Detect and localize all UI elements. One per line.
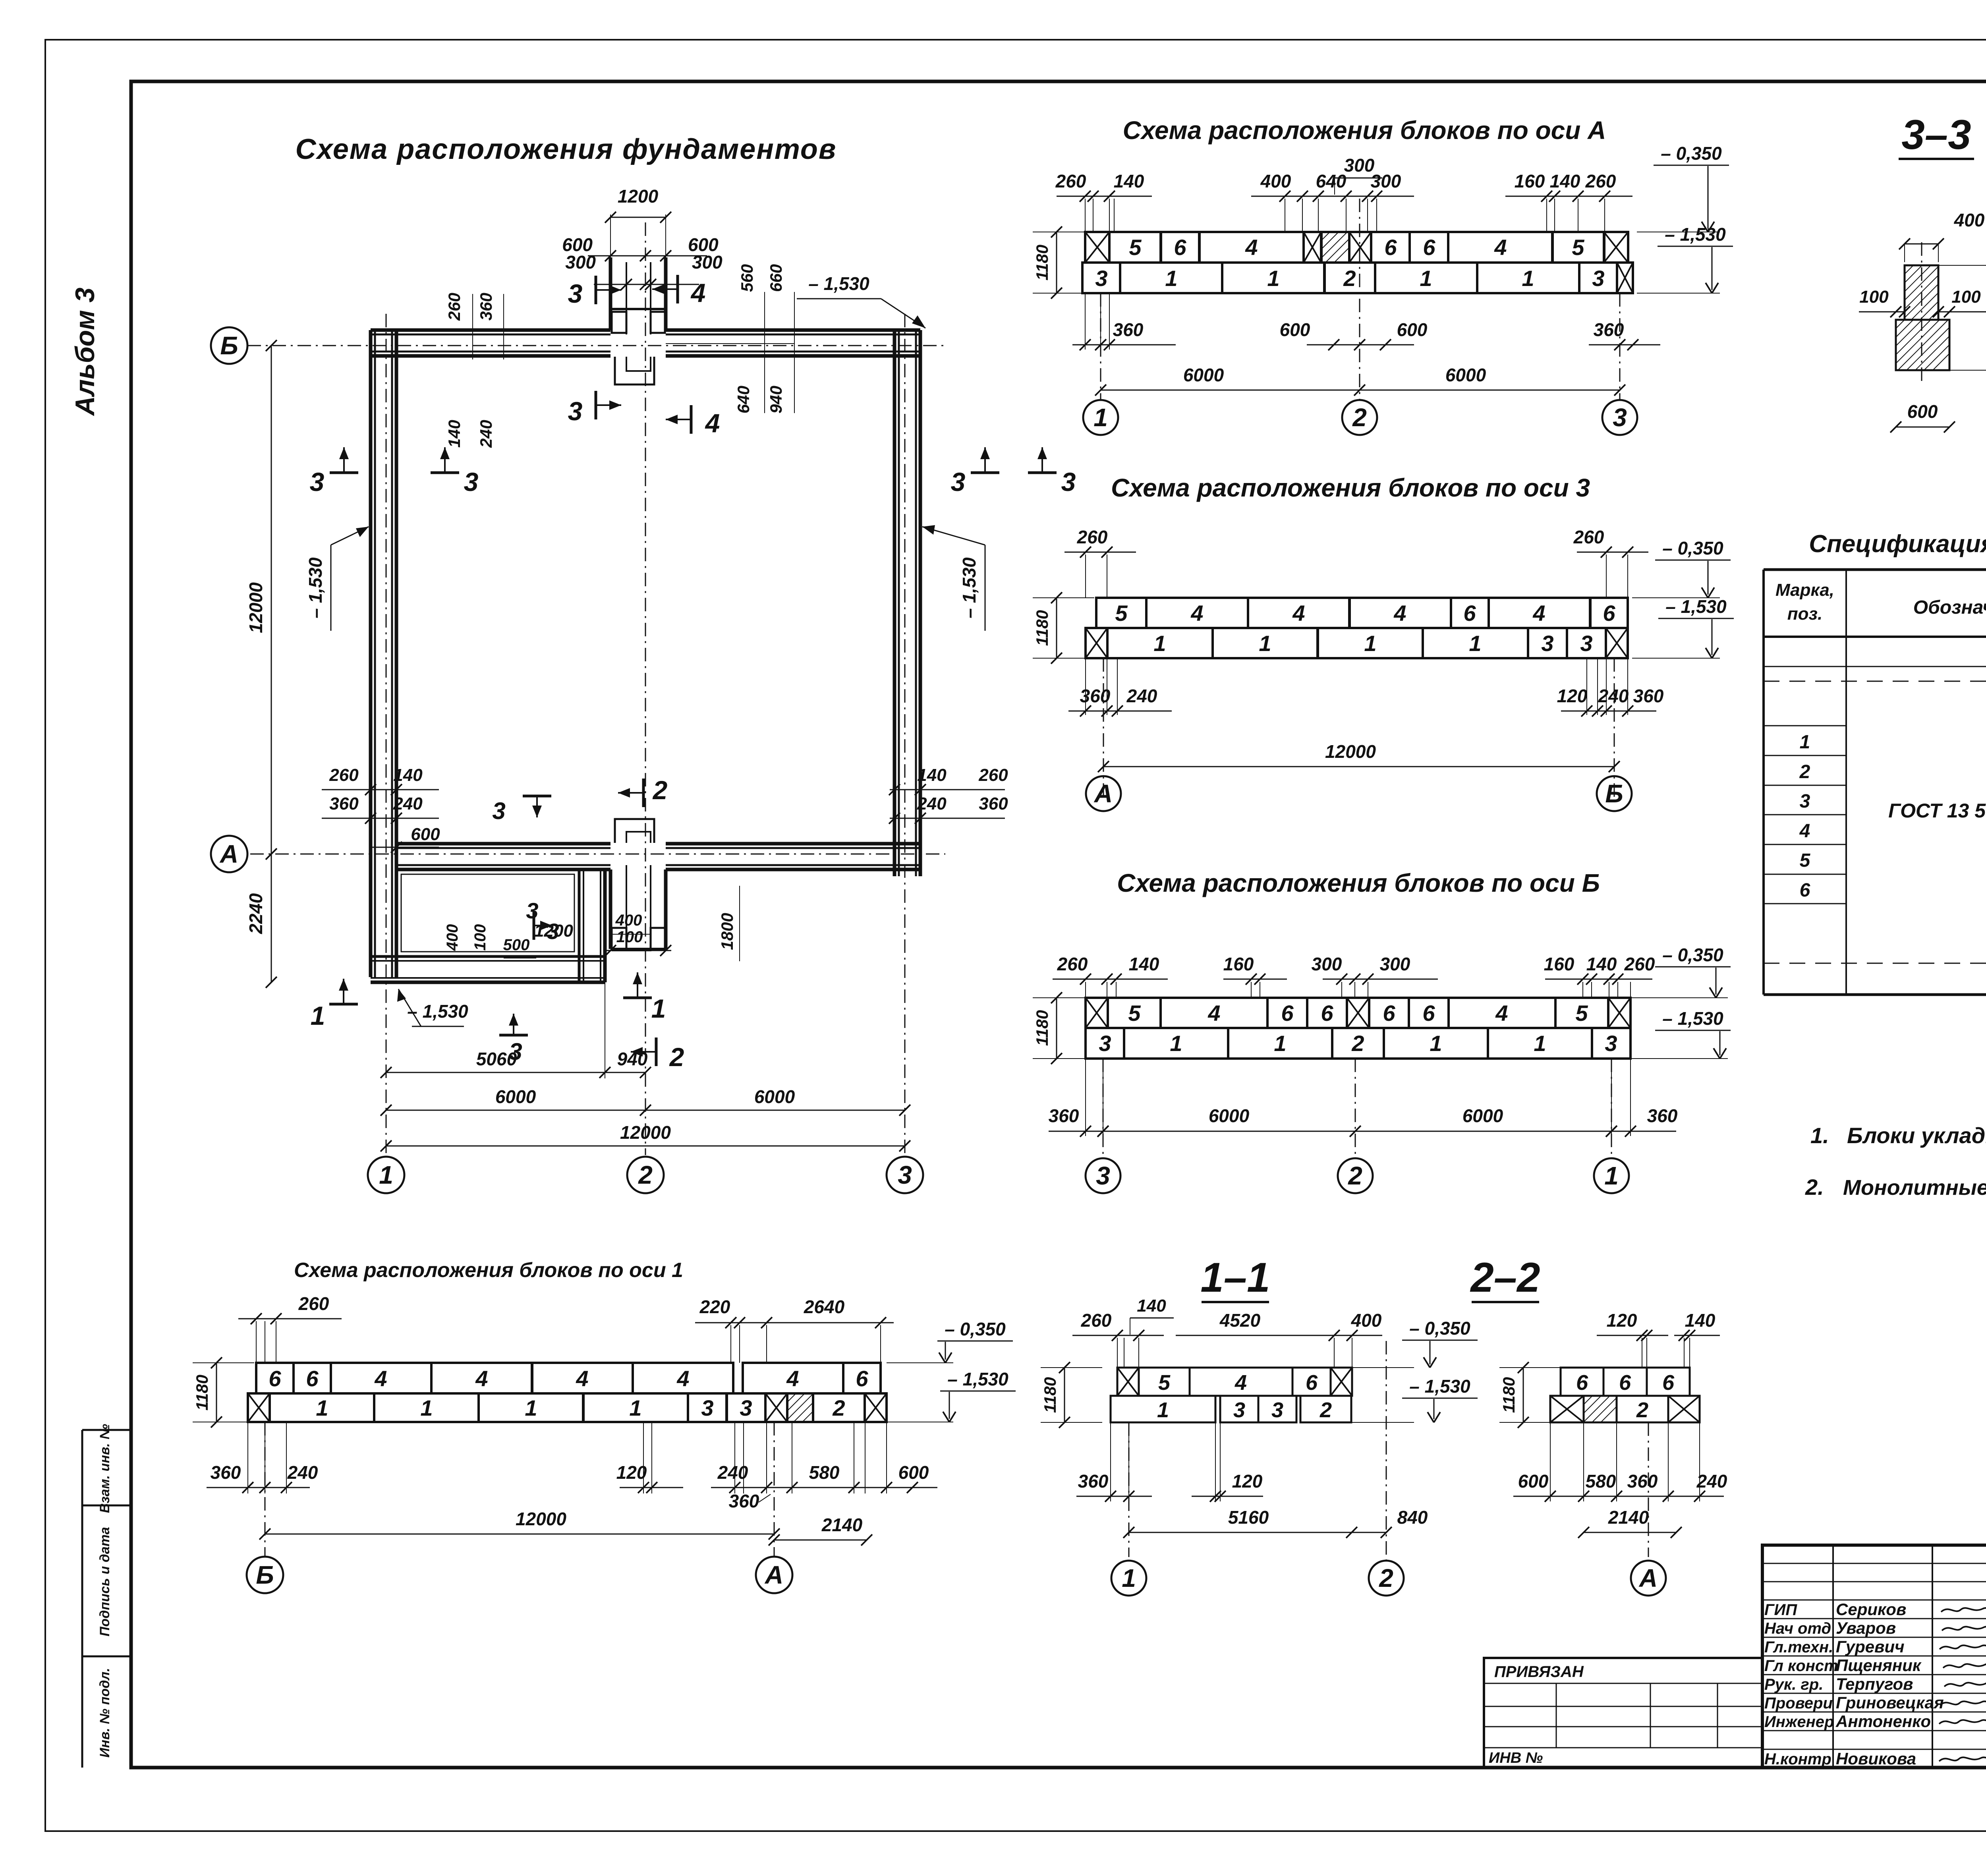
svg-text:5: 5 bbox=[1128, 1001, 1141, 1026]
svg-text:Монолитные участки выполнять: Монолитные участки выполнять из бетона к… bbox=[1843, 1176, 1986, 1200]
svg-text:6000: 6000 bbox=[1209, 1105, 1250, 1126]
svg-text:140: 140 bbox=[1129, 954, 1159, 974]
svg-text:360: 360 bbox=[1647, 1105, 1678, 1126]
elevation axis A level marks bbox=[1637, 232, 1720, 232]
svg-text:240: 240 bbox=[287, 1462, 318, 1483]
svg-text:– 1,530: – 1,530 bbox=[1409, 1376, 1470, 1397]
svg-text:260: 260 bbox=[298, 1293, 329, 1314]
svg-text:120: 120 bbox=[1557, 686, 1588, 706]
svg-text:– 1,530: – 1,530 bbox=[959, 557, 979, 618]
svg-text:4: 4 bbox=[374, 1366, 387, 1391]
svg-text:3: 3 bbox=[1096, 1161, 1110, 1190]
svg-text:1800: 1800 bbox=[718, 913, 736, 950]
svg-text:260: 260 bbox=[978, 765, 1008, 785]
elevation axis A upper row bbox=[1085, 232, 1109, 263]
svg-text:360: 360 bbox=[211, 1462, 241, 1483]
svg-text:3: 3 bbox=[1605, 1031, 1617, 1056]
section 3-3 level marks bbox=[1938, 265, 1986, 266]
svg-text:300: 300 bbox=[1371, 171, 1401, 191]
svg-text:840: 840 bbox=[1397, 1507, 1428, 1528]
svg-text:3: 3 bbox=[526, 898, 538, 923]
svg-text:3: 3 bbox=[701, 1395, 713, 1420]
svg-text:1: 1 bbox=[1364, 631, 1376, 656]
svg-text:640: 640 bbox=[734, 386, 753, 413]
svg-text:– 0,350: – 0,350 bbox=[1409, 1318, 1470, 1339]
elevation axis 1 level marks bbox=[887, 1362, 953, 1363]
svg-text:160: 160 bbox=[1223, 954, 1254, 974]
elevation axis 3 circles bbox=[1086, 776, 1121, 811]
svg-text:3–3: 3–3 bbox=[1901, 112, 1971, 158]
section 3-3 dims bbox=[1905, 243, 1938, 245]
svg-text:1: 1 bbox=[1170, 1031, 1182, 1056]
svg-text:260: 260 bbox=[445, 293, 464, 321]
svg-text:1180: 1180 bbox=[1033, 1010, 1051, 1046]
svg-text:560: 560 bbox=[738, 264, 756, 292]
svg-text:12000: 12000 bbox=[620, 1122, 671, 1143]
svg-text:660: 660 bbox=[767, 264, 785, 292]
svg-text:3: 3 bbox=[1061, 467, 1076, 497]
svg-text:6: 6 bbox=[1422, 1001, 1435, 1026]
svg-text:Блоки укладывать на раствор: Блоки укладывать на растворе марки 50. bbox=[1847, 1123, 1986, 1148]
svg-text:1: 1 bbox=[311, 1001, 325, 1030]
svg-text:1: 1 bbox=[1800, 732, 1810, 753]
svg-text:3: 3 bbox=[1095, 266, 1107, 291]
svg-text:1: 1 bbox=[1122, 1564, 1136, 1592]
svg-text:Инженер: Инженер bbox=[1764, 1713, 1834, 1731]
svg-text:140: 140 bbox=[445, 420, 464, 448]
svg-text:4: 4 bbox=[1207, 1001, 1220, 1026]
svg-text:3: 3 bbox=[951, 467, 966, 497]
svg-text:5: 5 bbox=[1572, 235, 1584, 260]
elevation axis A top dims bbox=[1085, 199, 1086, 232]
spec table grid bbox=[1764, 568, 1986, 571]
section 1-1 bottom dims bbox=[1110, 1422, 1111, 1501]
svg-text:3: 3 bbox=[1592, 266, 1604, 291]
svg-text:2.: 2. bbox=[1805, 1175, 1824, 1200]
svg-text:240: 240 bbox=[1598, 686, 1629, 706]
svg-text:Сериков: Сериков bbox=[1836, 1600, 1906, 1619]
svg-text:– 0,350: – 0,350 bbox=[945, 1319, 1006, 1339]
annex south wall bbox=[371, 955, 605, 958]
svg-text:240: 240 bbox=[1126, 686, 1157, 706]
elevation axis 3 upper row bbox=[1096, 598, 1146, 628]
svg-text:3: 3 bbox=[547, 919, 559, 944]
svg-text:5: 5 bbox=[1129, 235, 1142, 260]
svg-text:120: 120 bbox=[616, 1462, 647, 1483]
svg-text:ГОСТ 13 579 – 78: ГОСТ 13 579 – 78 bbox=[1888, 800, 1986, 822]
svg-text:6000: 6000 bbox=[495, 1086, 536, 1107]
svg-text:140: 140 bbox=[1550, 171, 1580, 191]
svg-text:5: 5 bbox=[1158, 1371, 1171, 1395]
svg-text:400: 400 bbox=[444, 924, 461, 951]
svg-text:260: 260 bbox=[1624, 954, 1655, 974]
svg-text:580: 580 bbox=[809, 1462, 840, 1483]
svg-text:3: 3 bbox=[1800, 791, 1810, 812]
section 3-3 footing bbox=[1896, 320, 1949, 370]
svg-text:4: 4 bbox=[1495, 1001, 1508, 1026]
svg-text:ИНВ №: ИНВ № bbox=[1489, 1750, 1543, 1766]
svg-text:300: 300 bbox=[1344, 155, 1375, 176]
svg-text:140: 140 bbox=[1114, 171, 1144, 191]
section 1-1 top dims bbox=[1117, 1338, 1118, 1368]
svg-text:400: 400 bbox=[1351, 1310, 1382, 1331]
elevation axis A 1180 dim bbox=[1056, 232, 1057, 293]
axis line A bbox=[250, 854, 945, 855]
svg-text:2: 2 bbox=[669, 1042, 684, 1072]
svg-text:1: 1 bbox=[420, 1395, 433, 1420]
elevation axis B level marks bbox=[1631, 997, 1728, 998]
svg-text:Схема расположения блоков по: Схема расположения блоков по оси 1 bbox=[294, 1259, 683, 1282]
section 2-2 circle bbox=[1631, 1561, 1666, 1596]
south porch walls bbox=[609, 869, 612, 949]
section 1-1 lower row bbox=[1111, 1396, 1215, 1422]
svg-text:6: 6 bbox=[1662, 1371, 1675, 1395]
svg-text:6000: 6000 bbox=[1445, 365, 1486, 385]
svg-text:120: 120 bbox=[1607, 1310, 1637, 1331]
svg-text:3: 3 bbox=[568, 279, 583, 308]
svg-text:1180: 1180 bbox=[1499, 1377, 1518, 1413]
svg-text:260: 260 bbox=[1057, 954, 1088, 974]
svg-text:360: 360 bbox=[1633, 686, 1664, 706]
svg-text:3: 3 bbox=[464, 467, 479, 497]
svg-text:3: 3 bbox=[1613, 403, 1627, 432]
svg-text:360: 360 bbox=[1113, 319, 1144, 340]
svg-text:1: 1 bbox=[629, 1395, 641, 1420]
svg-text:Схема расположения фундаментов: Схема расположения фундаментов bbox=[296, 133, 837, 165]
svg-text:140: 140 bbox=[1685, 1310, 1716, 1331]
svg-text:2640: 2640 bbox=[804, 1296, 845, 1317]
svg-text:2: 2 bbox=[832, 1395, 845, 1420]
svg-text:Обозначение: Обозначение bbox=[1913, 597, 1986, 618]
svg-text:4: 4 bbox=[1532, 601, 1545, 626]
wall axis A (south) bbox=[396, 842, 610, 846]
svg-text:1: 1 bbox=[1534, 1031, 1546, 1056]
svg-text:5: 5 bbox=[1115, 601, 1128, 626]
svg-text:3: 3 bbox=[1580, 631, 1592, 656]
svg-text:160: 160 bbox=[1515, 171, 1545, 191]
svg-text:1: 1 bbox=[316, 1395, 328, 1420]
svg-text:360: 360 bbox=[1049, 1105, 1079, 1126]
elevation axis 1 12000 dim bbox=[265, 1534, 774, 1535]
svg-text:6: 6 bbox=[269, 1366, 281, 1391]
svg-text:2: 2 bbox=[1636, 1398, 1648, 1422]
annex east wall bbox=[578, 869, 581, 982]
svg-text:400: 400 bbox=[1954, 210, 1985, 230]
svg-text:2: 2 bbox=[1351, 1031, 1364, 1056]
axis line B bbox=[247, 345, 945, 346]
svg-text:2: 2 bbox=[1348, 1161, 1362, 1190]
svg-text:А: А bbox=[219, 840, 238, 868]
svg-text:– 1,530: – 1,530 bbox=[947, 1369, 1008, 1389]
svg-text:2240: 2240 bbox=[245, 893, 266, 934]
section 2-2 top dims bbox=[1642, 1338, 1642, 1368]
svg-text:6: 6 bbox=[1306, 1371, 1318, 1395]
svg-text:1180: 1180 bbox=[1041, 1377, 1059, 1413]
svg-text:Альбом 3: Альбом 3 bbox=[70, 288, 100, 417]
svg-text:6: 6 bbox=[856, 1366, 868, 1391]
svg-text:2: 2 bbox=[1343, 266, 1356, 291]
svg-text:4: 4 bbox=[1190, 601, 1203, 626]
elevation axis A bottom dims bbox=[1085, 293, 1086, 350]
svg-text:2140: 2140 bbox=[1608, 1507, 1649, 1528]
svg-text:4: 4 bbox=[690, 278, 706, 307]
svg-text:140: 140 bbox=[393, 765, 423, 785]
section 2-2 lower row bbox=[1550, 1396, 1584, 1422]
svg-text:Б: Б bbox=[1605, 779, 1623, 808]
svg-text:300: 300 bbox=[1312, 954, 1342, 974]
svg-text:6: 6 bbox=[1174, 235, 1186, 260]
svg-text:1: 1 bbox=[1274, 1031, 1286, 1056]
elevation axis 1 upper row bbox=[256, 1363, 294, 1393]
svg-text:260: 260 bbox=[1081, 1310, 1112, 1331]
svg-text:Взам. инв. №: Взам. инв. № bbox=[97, 1424, 112, 1513]
section 1-1 1180 dim bbox=[1064, 1368, 1065, 1422]
elevation axis B lower row bbox=[1086, 1028, 1124, 1059]
svg-text:1: 1 bbox=[1157, 1398, 1169, 1422]
svg-text:Подпись и дата: Подпись и дата bbox=[97, 1527, 112, 1636]
svg-text:600: 600 bbox=[1280, 319, 1310, 340]
svg-text:Гуревич: Гуревич bbox=[1836, 1637, 1905, 1656]
svg-text:1180: 1180 bbox=[193, 1375, 211, 1410]
svg-text:260: 260 bbox=[329, 765, 359, 785]
svg-text:3: 3 bbox=[1541, 631, 1553, 656]
svg-text:Н.контр: Н.контр bbox=[1764, 1750, 1831, 1768]
svg-text:2: 2 bbox=[638, 1161, 653, 1189]
svg-text:2: 2 bbox=[1352, 403, 1367, 432]
margin stamp cells bbox=[81, 1430, 83, 1768]
svg-text:360: 360 bbox=[329, 794, 359, 813]
elevation axis B circles bbox=[1086, 1158, 1121, 1193]
elevation axis 1 lower row bbox=[248, 1393, 270, 1422]
svg-text:1: 1 bbox=[1469, 631, 1481, 656]
svg-text:1180: 1180 bbox=[1033, 245, 1051, 280]
svg-text:12000: 12000 bbox=[1325, 741, 1376, 762]
elevation axis 3 12000 dim bbox=[1103, 766, 1614, 767]
svg-text:6: 6 bbox=[306, 1366, 319, 1391]
svg-text:1–1: 1–1 bbox=[1200, 1254, 1270, 1301]
svg-text:220: 220 bbox=[699, 1296, 730, 1317]
svg-text:6: 6 bbox=[1603, 601, 1615, 626]
svg-text:Уваров: Уваров bbox=[1836, 1619, 1896, 1637]
svg-text:1: 1 bbox=[379, 1161, 393, 1189]
svg-text:6000: 6000 bbox=[1183, 365, 1224, 385]
privyazan table bbox=[1484, 1658, 1762, 1768]
svg-text:6: 6 bbox=[1384, 235, 1397, 260]
svg-text:100: 100 bbox=[471, 924, 489, 951]
svg-text:260: 260 bbox=[1055, 171, 1086, 191]
svg-text:400: 400 bbox=[615, 912, 642, 929]
svg-text:2: 2 bbox=[1799, 761, 1810, 782]
north porch walls bbox=[609, 257, 612, 330]
svg-text:1: 1 bbox=[1430, 1031, 1442, 1056]
svg-text:400: 400 bbox=[1260, 171, 1291, 191]
svg-text:– 1,530: – 1,530 bbox=[305, 557, 326, 618]
svg-text:– 0,350: – 0,350 bbox=[1661, 143, 1722, 164]
svg-text:100: 100 bbox=[1859, 287, 1889, 307]
svg-text:640: 640 bbox=[1316, 171, 1347, 191]
axis circles plan bbox=[211, 327, 247, 364]
svg-text:360: 360 bbox=[729, 1491, 759, 1511]
svg-text:2: 2 bbox=[1379, 1564, 1393, 1592]
axis line 1 bbox=[386, 314, 387, 1155]
section 2-2 upper row bbox=[1561, 1368, 1603, 1396]
svg-text:300: 300 bbox=[692, 252, 723, 272]
svg-text:3: 3 bbox=[1099, 1031, 1111, 1056]
elevation axis 3 top dims bbox=[1085, 554, 1086, 598]
elevation axis 1 circles bbox=[247, 1557, 283, 1593]
svg-text:360: 360 bbox=[1078, 1471, 1109, 1492]
svg-text:Гл конст: Гл конст bbox=[1764, 1657, 1838, 1675]
svg-text:240: 240 bbox=[477, 420, 495, 448]
svg-text:5: 5 bbox=[1575, 1001, 1588, 1026]
svg-text:140: 140 bbox=[1137, 1296, 1166, 1316]
svg-text:4520: 4520 bbox=[1219, 1310, 1261, 1331]
svg-text:1200: 1200 bbox=[618, 186, 659, 207]
svg-text:Гл.техн.: Гл.техн. bbox=[1764, 1638, 1833, 1656]
elevation axis 1 top dims bbox=[256, 1321, 257, 1363]
svg-text:580: 580 bbox=[1586, 1471, 1616, 1492]
svg-text:4: 4 bbox=[475, 1366, 488, 1391]
svg-text:– 1,530: – 1,530 bbox=[808, 273, 869, 294]
svg-text:240: 240 bbox=[393, 794, 423, 813]
svg-text:Схема расположения блоков по: Схема расположения блоков по оси Б bbox=[1117, 869, 1600, 897]
svg-text:100: 100 bbox=[616, 928, 643, 946]
svg-text:1: 1 bbox=[1165, 266, 1177, 291]
svg-text:Спецификация к схеме расположе: Спецификация к схеме расположения фундам… bbox=[1809, 530, 1986, 558]
svg-text:300: 300 bbox=[565, 252, 596, 272]
svg-text:Нач отд: Нач отд bbox=[1764, 1620, 1831, 1637]
svg-text:2–2: 2–2 bbox=[1470, 1254, 1540, 1301]
svg-text:600: 600 bbox=[1397, 319, 1428, 340]
svg-text:260: 260 bbox=[1585, 171, 1616, 191]
svg-text:А: А bbox=[764, 1561, 783, 1589]
svg-text:6: 6 bbox=[1576, 1371, 1588, 1395]
wall axis 1 (west) bbox=[369, 330, 373, 977]
section 1-1 level marks bbox=[1352, 1367, 1414, 1368]
svg-text:4: 4 bbox=[705, 408, 720, 438]
svg-text:ПРИВЯЗАН: ПРИВЯЗАН bbox=[1494, 1663, 1584, 1681]
svg-text:Терпугов: Терпугов bbox=[1836, 1675, 1913, 1693]
svg-text:360: 360 bbox=[979, 794, 1008, 813]
svg-text:1: 1 bbox=[1153, 631, 1166, 656]
svg-text:260: 260 bbox=[1077, 527, 1108, 547]
annex room inner contour bbox=[401, 874, 574, 952]
svg-text:6: 6 bbox=[1619, 1371, 1631, 1395]
svg-text:– 1,530: – 1,530 bbox=[1662, 1008, 1723, 1029]
svg-text:1: 1 bbox=[1604, 1161, 1619, 1190]
elevation axis A lower row bbox=[1082, 263, 1120, 293]
svg-text:1: 1 bbox=[1259, 631, 1271, 656]
svg-text:3: 3 bbox=[898, 1161, 912, 1189]
svg-text:Рук. гр.: Рук. гр. bbox=[1764, 1676, 1823, 1693]
svg-text:А: А bbox=[1638, 1564, 1658, 1592]
svg-text:– 0,350: – 0,350 bbox=[1662, 538, 1723, 558]
section 1-1 circles bbox=[1111, 1561, 1146, 1596]
svg-text:6: 6 bbox=[1423, 235, 1435, 260]
svg-text:Б: Б bbox=[220, 331, 238, 360]
svg-text:240: 240 bbox=[717, 1462, 748, 1483]
svg-text:3: 3 bbox=[509, 1038, 522, 1065]
elevation axis B 1180 dim bbox=[1056, 998, 1057, 1059]
svg-text:1: 1 bbox=[1420, 266, 1432, 291]
elevation axis B upper row bbox=[1086, 998, 1108, 1028]
svg-text:360: 360 bbox=[1080, 686, 1111, 706]
svg-text:6: 6 bbox=[1800, 880, 1810, 901]
svg-text:260: 260 bbox=[1573, 527, 1604, 547]
svg-text:Схема расположения блоков по о: Схема расположения блоков по оси А bbox=[1123, 116, 1606, 145]
svg-text:3: 3 bbox=[310, 467, 325, 497]
title block left grid bbox=[1832, 1545, 1834, 1768]
svg-text:4: 4 bbox=[1234, 1371, 1247, 1395]
svg-text:300: 300 bbox=[1380, 954, 1410, 974]
svg-text:4: 4 bbox=[576, 1366, 588, 1391]
svg-text:140: 140 bbox=[917, 765, 947, 785]
svg-text:4: 4 bbox=[1393, 601, 1406, 626]
svg-text:3: 3 bbox=[1271, 1398, 1283, 1422]
svg-text:6: 6 bbox=[1281, 1001, 1294, 1026]
svg-text:3: 3 bbox=[740, 1395, 752, 1420]
wall axis 3 (east) bbox=[893, 330, 896, 876]
svg-text:– 1,530: – 1,530 bbox=[1665, 224, 1726, 245]
svg-text:940: 940 bbox=[767, 386, 785, 413]
plan bottom dims bbox=[386, 1072, 645, 1073]
svg-text:6: 6 bbox=[1463, 601, 1476, 626]
svg-text:4: 4 bbox=[676, 1366, 689, 1391]
svg-text:6000: 6000 bbox=[754, 1086, 795, 1107]
svg-text:2: 2 bbox=[652, 775, 668, 805]
section 2-2 1180 dim bbox=[1523, 1368, 1524, 1422]
wall axis B (north) bbox=[371, 328, 610, 332]
elevation axis A 6000 dims bbox=[1101, 390, 1620, 391]
elevation axis 3 bottom dims bbox=[1085, 658, 1086, 715]
svg-text:360: 360 bbox=[1627, 1471, 1658, 1492]
svg-text:600: 600 bbox=[411, 825, 440, 844]
svg-text:240: 240 bbox=[1696, 1471, 1727, 1492]
svg-text:600: 600 bbox=[1907, 401, 1938, 422]
svg-text:Б: Б bbox=[256, 1561, 274, 1589]
svg-text:500: 500 bbox=[503, 936, 530, 954]
section 3-3 wall bbox=[1905, 265, 1938, 320]
svg-text:1: 1 bbox=[1093, 403, 1108, 432]
svg-text:6: 6 bbox=[1321, 1001, 1333, 1026]
svg-text:12000: 12000 bbox=[245, 582, 266, 633]
title block outline bbox=[1762, 1545, 1986, 1768]
elevation axis A axis circles bbox=[1100, 293, 1101, 399]
svg-text:А: А bbox=[1093, 779, 1113, 808]
svg-text:Схема расположения блоков по: Схема расположения блоков по оси 3 bbox=[1111, 473, 1590, 502]
svg-text:2140: 2140 bbox=[821, 1515, 863, 1535]
svg-text:3: 3 bbox=[1233, 1398, 1245, 1422]
svg-text:– 0,350: – 0,350 bbox=[1662, 945, 1723, 965]
svg-text:Новикова: Новикова bbox=[1836, 1749, 1916, 1768]
svg-text:360: 360 bbox=[477, 293, 495, 321]
svg-text:3: 3 bbox=[568, 396, 583, 426]
svg-text:12000: 12000 bbox=[516, 1509, 566, 1529]
svg-text:1: 1 bbox=[1267, 266, 1279, 291]
svg-text:Гриновецкая: Гриновецкая bbox=[1836, 1693, 1944, 1712]
svg-text:Инв. № подл.: Инв. № подл. bbox=[97, 1668, 112, 1758]
svg-text:1180: 1180 bbox=[1033, 610, 1051, 646]
svg-text:ГИП: ГИП bbox=[1764, 1601, 1797, 1619]
north portal notch bbox=[615, 357, 654, 384]
svg-text:1: 1 bbox=[1522, 266, 1534, 291]
svg-text:поз.: поз. bbox=[1787, 604, 1822, 624]
elevation axis B top dims bbox=[1085, 982, 1086, 998]
svg-text:– 1,530: – 1,530 bbox=[1665, 596, 1727, 617]
section 1-1 upper row bbox=[1117, 1368, 1139, 1396]
svg-text:4: 4 bbox=[1292, 601, 1305, 626]
svg-text:600: 600 bbox=[1518, 1471, 1549, 1492]
